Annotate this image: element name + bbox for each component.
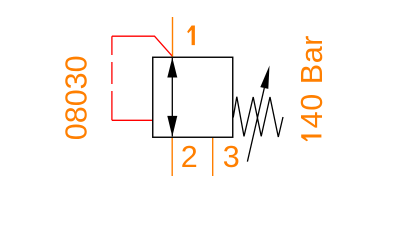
adjustment arrowhead: [260, 66, 269, 89]
flow arrowhead up: [167, 58, 177, 78]
wire: port 3 line (orange): [212, 138, 214, 176]
wire: pilot line top (red): [112, 36, 172, 56]
adjustment arrow shaft: [247, 88, 264, 162]
valve body square: [153, 57, 233, 137]
spring: [233, 97, 283, 137]
wire: pilot line bottom (red): [112, 119, 153, 121]
svg-text:3: 3: [223, 140, 240, 174]
svg-text:40 Bar: 40 Bar: [295, 36, 329, 129]
wire: port 1 line (orange): [172, 17, 174, 57]
wire: port 2 line (orange): [171, 138, 173, 176]
flow arrowhead down: [167, 116, 177, 137]
svg-text:08030: 08030: [59, 55, 93, 140]
label 140 Bar: [295, 36, 329, 142]
flow double arrow shaft: [171, 58, 173, 136]
wire: pilot line left dashed (red): [111, 36, 113, 120]
svg-text:2: 2: [181, 140, 198, 174]
port label 1: [187, 26, 195, 46]
